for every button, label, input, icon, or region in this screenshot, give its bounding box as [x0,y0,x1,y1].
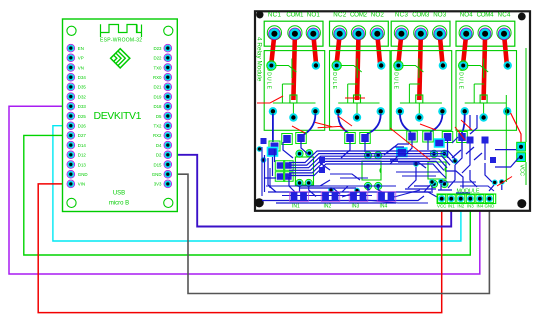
pin D18 (right) [153,103,171,111]
svg-text:DEVKITV1: DEVKITV1 [94,110,142,122]
relay K3 contact pads row [396,107,447,122]
pin D26 (left) [67,122,86,130]
pin GND (right) [152,170,172,178]
pin RX2 (right) [153,132,172,140]
pin D19 (right) [153,93,171,101]
svg-text:TX0: TX0 [153,65,162,70]
misc pads left cluster [269,141,293,181]
header J5 pin labels [437,204,494,209]
ESP-WROOM-32 label [100,38,142,44]
IC U4 pad vias [430,150,448,187]
svg-text:GND: GND [485,204,495,209]
misc vias [257,146,505,193]
module mounting hole bottom-left [255,198,264,207]
module mounting hole top-left [256,11,263,18]
thin red traces [257,96,512,186]
pin RX0 (right) [153,73,172,81]
pin D32 (left) [67,93,86,101]
header pin IN1 [447,195,455,203]
copper trace NC3 (thick red) [398,34,401,63]
input pad pair IN1 [290,192,309,210]
copper trace NO4 (thick red) [463,34,466,63]
svg-text:COM3: COM3 [412,11,430,18]
silkscreen edge lines [506,48,526,185]
header pin IN4 [476,195,484,203]
relay K3 contact symbol [400,59,442,104]
relay K3 coil pads row [394,61,447,70]
header pin VCC [438,195,446,203]
svg-text:D23: D23 [153,46,162,51]
pin GND (left) [67,170,88,178]
pin VN (left) [67,64,84,72]
svg-text:IN3: IN3 [467,204,474,209]
svg-text:D14: D14 [78,143,87,148]
svg-text:ESP-WROOM-32: ESP-WROOM-32 [100,38,142,44]
relay K1 contact pads row [269,107,320,122]
input pad pair IN2 [321,192,340,210]
pin D2 (right) [156,151,172,159]
copper trace NO1 (thick red) [313,34,316,63]
pin D15 (right) [153,161,171,169]
ESP32 DevKit V1 board outline [63,19,178,212]
relay K2 contact symbol [338,59,379,104]
pin D34 (left) [67,73,86,81]
pin D23 (right) [153,44,171,52]
svg-text:IN3: IN3 [352,204,360,210]
misc small pads [261,138,497,173]
header J5 label MODULE [456,188,479,194]
relay 4 aux pads [467,137,489,144]
Espressif logo [111,49,130,68]
svg-text:NO3: NO3 [433,11,447,18]
svg-text:D26: D26 [78,124,87,129]
pin EN (left) [67,44,84,52]
terminal block J4 labels NO4 COM4 NC4 [460,11,511,18]
relay K4 contact symbol [465,59,507,104]
pin VP (left) [67,54,84,62]
svg-text:COM1: COM1 [286,11,304,18]
svg-text:VN: VN [78,65,84,70]
svg-text:IN4: IN4 [476,204,483,209]
relay K2 coil pads row [332,61,385,70]
copper trace NC1 (thick red) [271,34,274,63]
svg-text:NC4: NC4 [498,11,512,18]
terminal block J3 outline [391,21,450,46]
relay K1 footprint outline [264,51,325,131]
VCC label [518,165,524,176]
antenna meander [101,24,142,37]
terminal block J4 outline [456,21,515,46]
4 Relay Module label [256,37,263,82]
svg-text:D12: D12 [78,153,87,158]
IC U4 footprint [428,162,446,179]
svg-text:D13: D13 [78,162,87,167]
copper trace COM1 (thick red) [293,34,295,100]
pin D13 (left) [67,161,86,169]
wire D33 to IN4 (purple) [9,106,480,274]
svg-text:D33: D33 [78,104,87,109]
relay K2 designator text [331,62,337,90]
relay K3 COM junction square [416,95,423,114]
svg-text:RX0: RX0 [153,75,162,80]
svg-text:RX2: RX2 [153,133,162,138]
relay K4 footprint outline [456,51,517,131]
module mounting hole top-right [518,13,526,21]
svg-text:NC2: NC2 [333,11,347,18]
relay K1 coil pads row [267,61,320,70]
board mounting hole bottom-left [67,198,76,207]
relay output traces to driver area (blue V traces) [273,114,465,142]
relay K4 designator text [458,62,464,90]
lower horizontal traces (blue) [262,147,494,203]
wire D26 to IN2 (cyan) [53,126,461,241]
IC U3 footprint [362,161,381,180]
pin D21 (right) [153,83,171,91]
svg-text:D5: D5 [156,114,162,119]
svg-text:TX2: TX2 [153,124,162,129]
terminal pads NO4 COM4 NC4 [460,28,510,40]
svg-text:IN1: IN1 [448,204,455,209]
wire D27 to IN3 (green) [24,135,471,255]
module mounting hole bottom-right [517,199,526,208]
terminal block J3 labels NC3 COM3 NO3 [395,11,447,18]
pin D25 (left) [67,112,86,120]
relay K2 contact pads row [334,107,385,122]
copper trace NC4 (thick red) [504,34,507,63]
pin TX2 (right) [153,122,171,130]
svg-text:IN1: IN1 [292,204,300,210]
terminal block J2 outline [330,21,389,46]
svg-text:MODULE: MODULE [456,188,479,194]
LED LED3 [435,139,445,147]
relay K2 footprint outline [330,51,391,131]
pin D5 (right) [156,112,172,120]
svg-text:GND: GND [78,172,88,177]
pin D12 (left) [67,151,86,159]
pin VIN (left) [67,180,85,188]
optocoupler U2 footprint [295,157,313,185]
svg-text:D22: D22 [153,56,162,61]
svg-text:D4: D4 [156,143,162,148]
pin D27 (left) [67,132,86,140]
svg-text:NC1: NC1 [268,11,282,18]
svg-text:D19: D19 [153,94,162,99]
svg-text:D15: D15 [153,162,162,167]
optocoupler U2 pad vias [296,150,313,187]
svg-text:IN2: IN2 [324,204,332,210]
bottom bus traces (blue) [262,140,485,203]
relay K1 COM junction square [290,95,297,114]
board mounting hole top-right [164,26,173,35]
pin D33 (left) [67,103,86,111]
terminal J2 screw hole circles [333,26,385,40]
svg-text:4 Relay Module: 4 Relay Module [256,37,263,82]
terminal block J1 labels NC1 COM1 NO1 [268,11,320,18]
svg-text:NO4: NO4 [460,11,474,18]
relay K1 contact symbol [273,59,316,104]
pin 3V3 (right) [154,180,172,188]
svg-text:USB: USB [113,191,125,197]
relay K3 footprint outline [391,51,452,131]
header pin IN2 [457,195,465,203]
svg-text:NO1: NO1 [307,11,321,18]
copper trace COM4 (thick red) [484,34,486,100]
VCC area traces [495,150,519,167]
svg-text:D25: D25 [78,114,87,119]
svg-text:D32: D32 [78,94,87,99]
svg-text:micro B: micro B [109,201,129,207]
terminal pads NC3 COM3 NO3 [395,28,446,40]
board mounting hole top-left [67,26,76,35]
terminal block J2 labels NC2 COM2 NO2 [333,11,384,18]
pin D22 (right) [153,54,171,62]
svg-text:D2: D2 [156,153,162,158]
copper trace COM3 (thick red) [419,34,421,100]
input pad pair IN4 [377,192,396,210]
svg-text:NC3: NC3 [395,11,409,18]
LED LED2 [397,148,407,157]
wire D2 to IN1 (indigo) [168,155,451,227]
IC U3 pad vias [364,152,381,190]
svg-text:D27: D27 [78,133,87,138]
header pin GND [485,195,493,203]
VCC feed trace (red) [511,113,521,144]
svg-text:GND: GND [152,172,162,177]
pin D4 (right) [156,141,172,149]
svg-text:VIN: VIN [78,182,85,187]
header J5 outline [437,194,496,204]
pin TX0 (right) [153,64,171,72]
relay K4 COM junction square [480,95,487,114]
svg-text:D21: D21 [153,85,162,90]
copper trace NO3 (thick red) [440,34,443,63]
USB micro B label [109,191,129,207]
copper trace COM2 (thick red) [357,34,359,100]
terminal pads NC1 COM1 NO1 [268,28,319,40]
svg-text:IN2: IN2 [457,204,464,209]
svg-text:VP: VP [78,56,84,61]
svg-text:EN: EN [78,46,84,51]
relay K4 contact pads row [461,107,512,122]
svg-text:3V3: 3V3 [154,182,162,187]
wire GND to GND (gray) [168,174,490,293]
copper trace NC2 (thick red) [337,34,340,63]
wire VIN to VCC (red) [38,184,442,313]
svg-text:COM2: COM2 [350,11,368,18]
terminal J4 screw hole circles [459,26,511,40]
relay K1 designator text [266,62,272,90]
svg-text:D34: D34 [78,75,87,80]
pin D14 (left) [67,141,86,149]
svg-text:VCC: VCC [518,165,524,176]
svg-text:IN4: IN4 [380,204,388,210]
signal trace bundle (blue) [289,151,456,176]
copper trace NO2 (thick red) [377,34,380,63]
extra routing traces (blue) [265,115,502,197]
header pin IN3 [466,195,474,203]
svg-text:VCC: VCC [437,204,446,209]
svg-text:COM4: COM4 [477,11,495,18]
terminal block J1 outline [264,21,323,46]
LED LED1 [268,148,278,157]
relay K2 COM junction square [354,95,361,114]
svg-text:D18: D18 [153,104,162,109]
terminal J3 screw hole circles [394,26,447,40]
DEVKITV1 label [94,110,142,122]
pin D35 (left) [67,83,86,91]
terminal J1 screw hole circles [267,26,320,40]
VCC pads right edge [517,142,526,161]
svg-text:NO2: NO2 [371,11,385,18]
relay module board outline [255,11,530,211]
board mounting hole bottom-right [164,198,173,207]
input pad pair IN3 [349,192,368,210]
relay K3 designator text [393,62,399,90]
svg-text:D35: D35 [78,85,87,90]
terminal pads NC2 COM2 NO2 [334,28,384,40]
relay K4 coil pads row [459,61,512,70]
driver transistor pads row [282,131,468,145]
